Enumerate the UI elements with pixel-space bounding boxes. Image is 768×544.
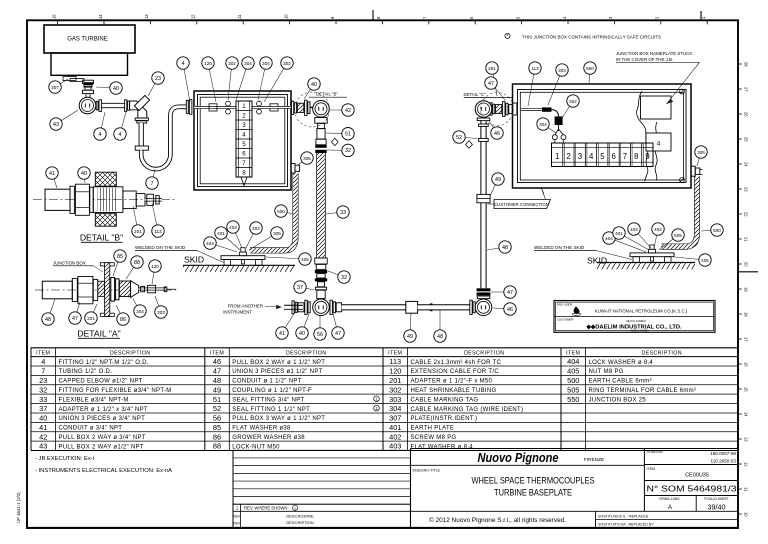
svg-text:86: 86 xyxy=(213,432,221,441)
svg-text:48: 48 xyxy=(45,317,51,323)
svg-text:CABLE 2x1.3mm² 4sh FOR TC: CABLE 2x1.3mm² 4sh FOR TC xyxy=(411,360,502,366)
svg-text:WELDED ON THE SKID: WELDED ON THE SKID xyxy=(534,245,585,250)
svg-text:304: 304 xyxy=(244,61,252,66)
svg-text:37: 37 xyxy=(39,404,47,413)
svg-text:LOCK-NUT M50: LOCK-NUT M50 xyxy=(232,444,280,450)
svg-text:302: 302 xyxy=(283,61,291,66)
svg-text:40: 40 xyxy=(311,82,317,88)
svg-text:19: 19 xyxy=(744,287,749,292)
svg-text:47: 47 xyxy=(507,290,513,296)
svg-text:14: 14 xyxy=(744,412,749,417)
svg-text:21: 21 xyxy=(744,237,749,242)
svg-text:EXTENSION CABLE FOR T/C: EXTENSION CABLE FOR T/C xyxy=(411,369,500,375)
svg-text:DETAIL "B": DETAIL "B" xyxy=(80,232,123,242)
svg-text:9: 9 xyxy=(645,152,649,161)
svg-text:505: 505 xyxy=(567,385,579,394)
svg-text:110.2650-53: 110.2650-53 xyxy=(711,458,737,463)
svg-text:FROM ANOTHER: FROM ANOTHER xyxy=(228,304,263,309)
svg-text:39/40: 39/40 xyxy=(708,503,726,512)
svg-text:IN THE COVER OF THE J.B.: IN THE COVER OF THE J.B. xyxy=(616,57,673,62)
svg-text:307: 307 xyxy=(51,85,59,90)
svg-text:SEOUL KOREA: SEOUL KOREA xyxy=(631,329,649,332)
svg-text:FLAT WASHER ø38: FLAT WASHER ø38 xyxy=(232,426,291,432)
svg-text:305: 305 xyxy=(303,156,311,161)
svg-text:© 2012 Nuovo Pignone S.r.l., a: © 2012 Nuovo Pignone S.r.l., all rights … xyxy=(429,517,566,524)
svg-text:405: 405 xyxy=(701,258,709,263)
svg-text:7: 7 xyxy=(41,367,45,376)
svg-text:113: 113 xyxy=(531,66,539,71)
svg-text:THIS JUNCTION BOX CONTAINS INT: THIS JUNCTION BOX CONTAINS INTRINSICALLY… xyxy=(522,34,661,39)
svg-text:41: 41 xyxy=(39,423,47,432)
svg-text:43: 43 xyxy=(53,122,59,128)
svg-text:FITTING FOR FLEXIBLE ø3/4" NPT: FITTING FOR FLEXIBLE ø3/4" NPT-M xyxy=(59,388,172,394)
svg-text:17: 17 xyxy=(744,337,749,342)
svg-text:PULL BOX 2 WAY ø 3/4" NPT: PULL BOX 2 WAY ø 3/4" NPT xyxy=(59,435,146,441)
svg-text:113: 113 xyxy=(154,229,162,234)
svg-text:7: 7 xyxy=(242,160,246,167)
svg-text:ITEM: ITEM xyxy=(566,351,580,357)
svg-text:42: 42 xyxy=(39,432,47,441)
svg-text:SOSTITUISCE IL - REPLACES: SOSTITUISCE IL - REPLACES xyxy=(598,514,649,518)
svg-text:47: 47 xyxy=(72,316,78,322)
svg-text:500: 500 xyxy=(277,209,285,214)
svg-text:401: 401 xyxy=(217,231,225,236)
svg-text:401: 401 xyxy=(389,423,401,432)
svg-text:86: 86 xyxy=(120,317,126,323)
svg-text:4: 4 xyxy=(41,357,45,366)
svg-text:5: 5 xyxy=(600,152,605,161)
svg-text:DESCRIPTION: DESCRIPTION xyxy=(110,351,151,357)
svg-text:SEAL FITTING 3/4" NPT: SEAL FITTING 3/4" NPT xyxy=(232,397,304,403)
svg-text:1: 1 xyxy=(242,103,246,110)
svg-text:CABLE MARKING TAG (WIRE IDENT): CABLE MARKING TAG (WIRE IDENT) xyxy=(411,407,524,413)
svg-text:52: 52 xyxy=(213,404,221,413)
svg-text:51: 51 xyxy=(345,132,351,138)
svg-text:304: 304 xyxy=(136,309,144,314)
svg-text:REV: REV xyxy=(234,515,241,519)
svg-text:EARTH PLATE: EARTH PLATE xyxy=(411,426,455,432)
svg-text:TUBING 1/2" O.D.: TUBING 1/2" O.D. xyxy=(59,369,113,375)
svg-text:UP 4641-1 (2/3): UP 4641-1 (2/3) xyxy=(16,492,21,523)
svg-text:GAS TURBINE: GAS TURBINE xyxy=(67,36,108,42)
svg-text:41: 41 xyxy=(49,171,55,177)
svg-text:32: 32 xyxy=(345,148,351,154)
svg-text:2: 2 xyxy=(566,152,570,161)
svg-text:PULL BOX 2 WAY ø1/2" NPT: PULL BOX 2 WAY ø1/2" NPT xyxy=(59,444,144,450)
svg-text:303: 303 xyxy=(558,68,566,73)
svg-text:405: 405 xyxy=(567,367,579,376)
svg-text:SCREW M8 PG: SCREW M8 PG xyxy=(411,435,457,441)
svg-text:23: 23 xyxy=(744,187,749,192)
svg-text:1: 1 xyxy=(555,152,559,161)
svg-text:46: 46 xyxy=(213,357,221,366)
svg-text:WHEEL SPACE THERMOCOUPLES: WHEEL SPACE THERMOCOUPLES xyxy=(472,475,595,485)
svg-text:3: 3 xyxy=(242,122,246,129)
svg-text:40: 40 xyxy=(113,86,119,92)
svg-text:291: 291 xyxy=(488,66,496,71)
svg-text:3: 3 xyxy=(578,152,582,161)
svg-text:14: 14 xyxy=(98,14,103,19)
svg-text:550: 550 xyxy=(586,66,594,71)
svg-text:DETAIL "A": DETAIL "A" xyxy=(77,328,120,338)
svg-text:48: 48 xyxy=(213,376,221,385)
svg-text:HEAT SHRINKABLE TUBING: HEAT SHRINKABLE TUBING xyxy=(411,388,497,394)
svg-text:4: 4 xyxy=(182,61,185,67)
svg-text:REV: REV xyxy=(234,522,241,526)
svg-text:FIRMA-LANG.: FIRMA-LANG. xyxy=(659,497,680,501)
svg-text:403: 403 xyxy=(630,227,638,232)
svg-text:113: 113 xyxy=(389,357,401,366)
svg-text:404: 404 xyxy=(605,236,613,241)
svg-text:23: 23 xyxy=(155,76,161,82)
svg-text:GROWER WASHER ø38: GROWER WASHER ø38 xyxy=(232,435,305,441)
svg-text:47: 47 xyxy=(335,331,341,337)
svg-text:DETAIL "C": DETAIL "C" xyxy=(464,92,486,97)
svg-text:Nuovo Pignone: Nuovo Pignone xyxy=(478,451,559,465)
svg-text:33: 33 xyxy=(39,395,47,404)
svg-text:28: 28 xyxy=(744,62,749,67)
svg-text:404: 404 xyxy=(206,241,214,246)
svg-text:27: 27 xyxy=(744,87,749,92)
svg-text:DESCRIPTION: DESCRIPTION xyxy=(464,351,505,357)
svg-text:48: 48 xyxy=(437,334,443,340)
svg-text:SKID: SKID xyxy=(184,255,204,265)
svg-text:56: 56 xyxy=(317,332,323,338)
svg-text:ADAPTER ø 1 1/2"-F x M50: ADAPTER ø 1 1/2"-F x M50 xyxy=(411,379,493,385)
svg-text:COUPLING ø 1 1/2" NPT-F: COUPLING ø 1 1/2" NPT-F xyxy=(232,388,312,394)
svg-text:22: 22 xyxy=(744,212,749,217)
svg-text:304: 304 xyxy=(389,404,401,413)
svg-text:403: 403 xyxy=(229,225,237,230)
svg-text:4: 4 xyxy=(589,152,594,161)
svg-text:10: 10 xyxy=(283,14,288,19)
svg-text:LOCK WASHER ø 8.4: LOCK WASHER ø 8.4 xyxy=(589,360,654,366)
svg-text:49: 49 xyxy=(213,385,221,394)
svg-text:7: 7 xyxy=(623,152,627,161)
svg-text:201: 201 xyxy=(389,376,401,385)
svg-text:11: 11 xyxy=(237,14,242,19)
svg-text:EARTH CABLE 6mm²: EARTH CABLE 6mm² xyxy=(589,379,652,385)
svg-text:43: 43 xyxy=(39,442,47,451)
svg-text:120: 120 xyxy=(204,61,212,66)
svg-text:DETAIL "B": DETAIL "B" xyxy=(316,92,338,97)
svg-text:305: 305 xyxy=(273,231,281,236)
svg-text:26: 26 xyxy=(744,112,749,117)
svg-text:56: 56 xyxy=(213,414,221,423)
svg-text:FIRENZE: FIRENZE xyxy=(584,457,605,463)
svg-text:CE00U35: CE00U35 xyxy=(685,473,709,479)
svg-text:A: A xyxy=(668,505,672,511)
svg-text:88: 88 xyxy=(134,260,140,266)
svg-text:85: 85 xyxy=(213,423,221,432)
svg-text:120: 120 xyxy=(151,264,159,269)
svg-text:201: 201 xyxy=(87,316,95,321)
svg-text:FOGLIO-SHEET: FOGLIO-SHEET xyxy=(704,497,729,501)
svg-text:ITEM: ITEM xyxy=(388,351,402,357)
svg-text:25: 25 xyxy=(744,137,749,142)
svg-text:304: 304 xyxy=(539,122,547,127)
svg-text:201: 201 xyxy=(134,229,142,234)
svg-text:11: 11 xyxy=(744,487,749,492)
svg-text:CONDUIT ø 1 1/2" NPT: CONDUIT ø 1 1/2" NPT xyxy=(232,379,301,385)
svg-text:120: 120 xyxy=(389,367,401,376)
svg-text:FLAT WASHER ø 8.4: FLAT WASHER ø 8.4 xyxy=(411,444,474,450)
svg-text:302: 302 xyxy=(228,61,236,66)
svg-text:FLEXIBLE ø3/4" NPT-M: FLEXIBLE ø3/4" NPT-M xyxy=(59,397,129,403)
svg-text:302: 302 xyxy=(569,99,577,104)
svg-text:37: 37 xyxy=(297,285,303,291)
svg-text:49: 49 xyxy=(495,177,501,183)
svg-text:1: 1 xyxy=(294,507,296,511)
svg-text:NUT M8 PG: NUT M8 PG xyxy=(589,369,624,375)
svg-text:12: 12 xyxy=(744,462,749,467)
svg-text:DESCRIPTION: DESCRIPTION xyxy=(286,351,327,357)
svg-text:PULL BOX 3 WAY ø 1 1/2" NPT: PULL BOX 3 WAY ø 1 1/2" NPT xyxy=(232,416,325,422)
svg-text:307: 307 xyxy=(389,414,401,423)
svg-text:- INSTRUMENTS ELECTRICAL EXECU: - INSTRUMENTS ELECTRICAL EXECUTION: Ex-n… xyxy=(35,468,172,474)
svg-text:SEAL FITTING 1 1/2" NPT: SEAL FITTING 1 1/2" NPT xyxy=(232,407,310,413)
svg-text:18: 18 xyxy=(744,312,749,317)
svg-text:CUSTOMER CONNECTION: CUSTOMER CONNECTION xyxy=(494,202,549,207)
svg-text:23: 23 xyxy=(39,376,47,385)
svg-text:46: 46 xyxy=(494,131,500,137)
svg-text:JUNCTION BOX 25: JUNCTION BOX 25 xyxy=(589,397,647,403)
svg-text:SKID: SKID xyxy=(587,256,607,266)
svg-text:SEOUL KOREA: SEOUL KOREA xyxy=(626,319,646,323)
svg-text:2: 2 xyxy=(242,113,246,120)
svg-text:500: 500 xyxy=(567,376,579,385)
svg-text:UNION 3 PIECES ø 3/4" NPT: UNION 3 PIECES ø 3/4" NPT xyxy=(59,416,146,422)
svg-text:180.0057-58: 180.0057-58 xyxy=(710,451,736,456)
svg-text:END USER: END USER xyxy=(557,302,572,306)
svg-text:CONDUIT ø 3/4" NPT: CONDUIT ø 3/4" NPT xyxy=(59,426,123,432)
svg-text:ADAPTER ø 1 1/2" x 3/4" NPT: ADAPTER ø 1 1/2" x 3/4" NPT xyxy=(59,407,148,413)
svg-text:7: 7 xyxy=(151,181,154,187)
svg-text:CABLE MARKING TAG: CABLE MARKING TAG xyxy=(411,397,479,403)
svg-text:PULL BOX 2 WAY ø 1 1/2" NPT: PULL BOX 2 WAY ø 1 1/2" NPT xyxy=(232,360,325,366)
svg-text:48: 48 xyxy=(502,245,508,251)
svg-text:403: 403 xyxy=(389,442,401,451)
svg-text:PLATE(INSTR.IDENT.): PLATE(INSTR.IDENT.) xyxy=(411,416,478,422)
svg-text:ITEM: ITEM xyxy=(647,467,656,471)
svg-text:UNION 3 PIECES ø1 1/2" NPT: UNION 3 PIECES ø1 1/2" NPT xyxy=(232,369,322,375)
svg-text:41: 41 xyxy=(279,331,285,337)
svg-text:302: 302 xyxy=(389,385,401,394)
svg-text:6: 6 xyxy=(242,151,246,158)
svg-text:33: 33 xyxy=(340,210,346,216)
svg-text:5: 5 xyxy=(242,141,246,148)
svg-text:REV. WHERE SHOWN: REV. WHERE SHOWN xyxy=(244,506,287,511)
svg-text:47: 47 xyxy=(488,81,494,87)
svg-text:402: 402 xyxy=(252,226,260,231)
svg-text:8: 8 xyxy=(634,152,638,161)
svg-text:TURBINE BASEPLATE: TURBINE BASEPLATE xyxy=(494,487,572,497)
svg-text:305: 305 xyxy=(697,150,705,155)
svg-text:401: 401 xyxy=(615,231,623,236)
svg-text:SOSTITUITO DA - REPLACED BY: SOSTITUITO DA - REPLACED BY xyxy=(598,522,654,526)
svg-text:500: 500 xyxy=(713,228,721,233)
svg-text:KUWAIT NATIONAL PETROLEUM CO.(: KUWAIT NATIONAL PETROLEUM CO.(K.S.C.) xyxy=(595,309,688,314)
svg-text:CUSTOMER: CUSTOMER xyxy=(557,318,574,322)
svg-text:RING TERMINAL FOR CABLE 6mm²: RING TERMINAL FOR CABLE 6mm² xyxy=(589,388,697,394)
svg-text:47: 47 xyxy=(213,367,221,376)
svg-text:304: 304 xyxy=(262,61,270,66)
svg-text:8: 8 xyxy=(242,170,246,177)
svg-text:- JB EXECUTION: Ex-i: - JB EXECUTION: Ex-i xyxy=(35,456,94,462)
svg-text:4: 4 xyxy=(242,132,246,139)
svg-text:DISEGNO-TITLE: DISEGNO-TITLE xyxy=(413,469,441,473)
svg-text:N° SOM 5464981/3: N° SOM 5464981/3 xyxy=(647,484,738,493)
svg-text:24: 24 xyxy=(744,162,749,167)
svg-text:405: 405 xyxy=(301,257,309,262)
svg-text:4: 4 xyxy=(657,140,661,147)
svg-text:402: 402 xyxy=(654,227,662,232)
svg-text:49: 49 xyxy=(407,334,413,340)
svg-text:15: 15 xyxy=(51,14,56,19)
svg-text:4: 4 xyxy=(99,132,102,138)
svg-text:85: 85 xyxy=(117,254,123,260)
svg-text:46: 46 xyxy=(507,307,513,313)
svg-text:4: 4 xyxy=(119,132,122,138)
svg-text:CAPPED ELBOW ø1/2" NPT: CAPPED ELBOW ø1/2" NPT xyxy=(59,379,143,385)
svg-text:ITEM: ITEM xyxy=(210,351,224,357)
svg-text:52: 52 xyxy=(456,135,462,141)
svg-text:32: 32 xyxy=(341,275,347,281)
svg-text:303: 303 xyxy=(389,395,401,404)
svg-text:SOM/JOB: SOM/JOB xyxy=(647,450,664,454)
svg-text:88: 88 xyxy=(213,442,221,451)
svg-text:JUNCTION BOX NAMEPLATE STUCK: JUNCTION BOX NAMEPLATE STUCK xyxy=(616,51,692,56)
svg-text:FITTING 1/2" NPT-M 1/2" O.D.: FITTING 1/2" NPT-M 1/2" O.D. xyxy=(59,360,149,366)
svg-text:JUNCTION BOX: JUNCTION BOX xyxy=(53,260,86,265)
svg-text:40: 40 xyxy=(39,414,47,423)
svg-text:404: 404 xyxy=(567,357,579,366)
svg-text:13: 13 xyxy=(144,14,149,19)
svg-text:303: 303 xyxy=(157,310,165,315)
svg-text:WELDED ON THE SKID: WELDED ON THE SKID xyxy=(135,245,186,250)
svg-text:402: 402 xyxy=(389,432,401,441)
svg-text:51: 51 xyxy=(213,395,221,404)
svg-text:32: 32 xyxy=(39,385,47,394)
svg-text:DESCRIPTION: DESCRIPTION xyxy=(286,520,313,525)
svg-text:550: 550 xyxy=(567,395,579,404)
svg-text:20: 20 xyxy=(744,262,749,267)
svg-text:INSTRUMENT: INSTRUMENT xyxy=(223,310,252,315)
svg-text:DESCRIPTION: DESCRIPTION xyxy=(641,351,682,357)
svg-text:15: 15 xyxy=(744,387,749,392)
svg-text:40: 40 xyxy=(299,331,305,337)
svg-text:12: 12 xyxy=(191,14,196,19)
svg-text:DESCRIZIONE: DESCRIZIONE xyxy=(286,514,314,519)
svg-text:505: 505 xyxy=(674,233,682,238)
svg-text:42: 42 xyxy=(345,108,351,114)
svg-text:10: 10 xyxy=(744,512,749,517)
svg-text:13: 13 xyxy=(744,437,749,442)
svg-text:16: 16 xyxy=(744,362,749,367)
svg-text:40: 40 xyxy=(81,171,87,177)
svg-text:6: 6 xyxy=(612,152,616,161)
svg-text:ITEM: ITEM xyxy=(36,351,50,357)
